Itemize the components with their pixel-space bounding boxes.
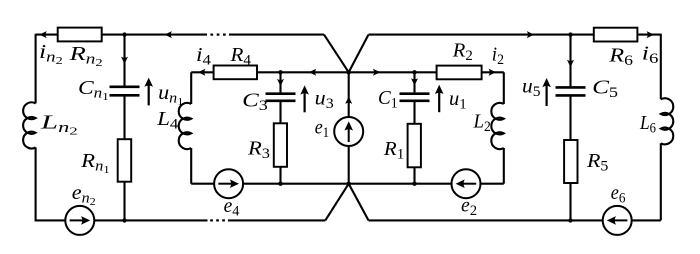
wire bottom outer left 2 (after dots)	[228, 219, 325, 221]
wire diagonal bottom-left to center node	[325, 184, 348, 221]
current arrow into C_3	[277, 79, 284, 86]
inductor L_4	[179, 103, 192, 149]
wire top outer left	[36, 34, 207, 36]
voltage arrowhead u_5	[542, 78, 551, 87]
junction node center top	[347, 70, 351, 74]
voltage arrow u_5	[545, 84, 547, 106]
current arrow i_6 on top-right wire	[647, 31, 654, 38]
inductor L_6	[661, 98, 674, 144]
junction node C_1 top	[412, 70, 416, 74]
voltage arrowhead u_n1	[144, 78, 153, 87]
current arrow into C_5	[567, 60, 574, 67]
current arrow into C_n1	[121, 57, 128, 64]
wire branch C_n1 top	[123, 35, 125, 86]
resistor R_5	[564, 140, 577, 183]
wire inner top	[191, 71, 504, 73]
wire branch e_1	[348, 72, 350, 183]
capacitor C_n1	[110, 87, 140, 96]
source e_1	[334, 117, 363, 146]
voltage arrowhead u_3	[300, 85, 309, 94]
resistor R_2	[437, 66, 482, 80]
wire diagonal top-right to center node	[349, 35, 369, 73]
wire diagonal top-left to center node	[324, 35, 349, 73]
wire branch L_2 top	[503, 72, 505, 104]
resistor R_1	[408, 124, 421, 168]
wire inner bottom	[191, 183, 504, 185]
wire branch C_3 top	[279, 72, 281, 92]
current arrow left of center node	[309, 69, 316, 76]
wire branch L_4 bottom	[190, 148, 192, 184]
wire right edge upper	[660, 34, 662, 100]
wire bottom outer right	[369, 219, 661, 221]
junction node C_n1 top	[122, 32, 126, 36]
wire right edge lower	[660, 143, 662, 220]
current arrow into C_1	[411, 78, 418, 85]
current arrow on e_1 branch	[345, 97, 352, 104]
wire diagonal bottom-right to center node	[349, 184, 369, 221]
wire branch R_3 bottom	[279, 167, 281, 184]
wire branch C_5 middle	[569, 97, 571, 141]
capacitor C_3	[266, 94, 296, 101]
wire branch C_1 middle	[413, 102, 415, 124]
ellipsis bottom wire	[210, 219, 213, 221]
wire branch R_1 bottom	[413, 167, 415, 183]
voltage arrow u_1	[438, 91, 440, 112]
wire branch R_5 bottom	[569, 183, 571, 220]
junction node R_n1 bottom	[122, 218, 126, 222]
wire branch R_n1 bottom	[123, 182, 125, 221]
ellipsis top wire	[210, 34, 213, 36]
current arrow i_2 on inner top wire	[489, 69, 496, 76]
junction node R_5 bottom	[568, 218, 572, 222]
capacitor C_1	[400, 94, 430, 101]
wire branch C_5 top	[569, 35, 571, 87]
wire top outer left 2 (after dots)	[229, 34, 324, 36]
junction node C_5 top	[568, 32, 572, 36]
capacitor C_5	[556, 87, 586, 95]
junction node R_3 bottom	[278, 182, 282, 186]
voltage arrowhead u_1	[435, 85, 444, 94]
resistor R_3	[274, 123, 287, 167]
junction node center bottom	[347, 182, 351, 186]
wire branch C_3 middle	[279, 102, 281, 123]
wire top outer right	[369, 34, 661, 36]
current arrow on top-right wire	[527, 31, 534, 38]
current arrow i_n2 on top-left wire	[39, 31, 46, 38]
resistor R_6	[594, 28, 638, 42]
current arrow on top wire toward dots	[165, 31, 172, 38]
resistor R_n1	[118, 139, 132, 182]
resistor R_n2	[58, 28, 102, 42]
junction node R_1 bottom	[412, 182, 416, 186]
wire branch C_n1 middle	[123, 96, 125, 139]
wire left edge lower	[35, 147, 37, 220]
current arrow right of center node	[373, 69, 380, 76]
voltage arrow u_n1	[148, 84, 150, 105]
inductor L_2	[491, 103, 504, 149]
voltage arrow u_3	[304, 92, 306, 113]
wire branch L_2 bottom	[503, 148, 505, 184]
inductor L_n2	[23, 102, 36, 148]
resistor R_4	[214, 66, 257, 80]
source e_6	[603, 206, 632, 235]
junction node C_3 top	[278, 70, 282, 74]
source e_n2	[65, 206, 94, 235]
source e_2	[452, 169, 481, 198]
wire branch L_4 top	[190, 72, 192, 104]
wire bottom outer left	[36, 218, 208, 221]
source e_4	[214, 169, 243, 198]
current arrow i_4 on inner top wire	[198, 69, 205, 76]
wire left edge upper	[35, 34, 37, 104]
wire branch C_1 top	[413, 72, 415, 92]
